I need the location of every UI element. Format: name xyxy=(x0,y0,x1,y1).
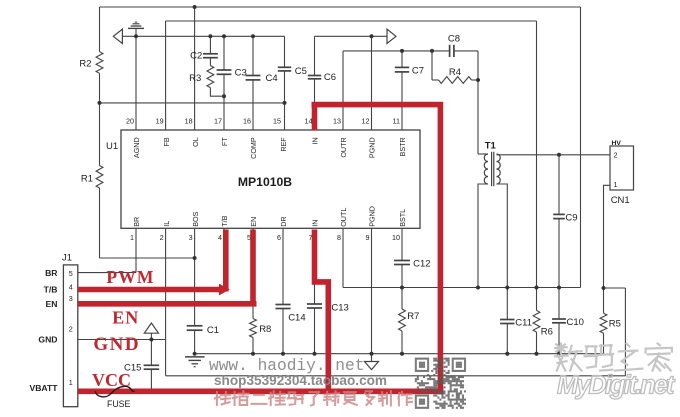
junction at 99.5,102.9 xyxy=(98,101,102,105)
svg-text:C12: C12 xyxy=(413,259,430,270)
junction at 507.3,287.5 xyxy=(505,286,509,290)
svg-text:PWM: PWM xyxy=(106,267,154,287)
svg-text:BR: BR xyxy=(132,217,141,227)
resistor R3 xyxy=(189,58,224,96)
svg-text:OUTR: OUTR xyxy=(339,137,348,157)
capacitor C10 (divider bottom) xyxy=(552,288,584,354)
junction at 402,50.9 xyxy=(400,49,404,53)
node: left off-page arrow (AGND) xyxy=(113,29,122,43)
wire: secondary bottom lead xyxy=(497,184,508,288)
wire: secondary top lead (HV) xyxy=(497,154,611,156)
svg-text:11: 11 xyxy=(393,116,400,125)
svg-text:BR: BR xyxy=(45,268,58,278)
svg-text:T1: T1 xyxy=(485,141,497,152)
svg-text:C8: C8 xyxy=(448,34,460,45)
wire: primary bottom lead xyxy=(478,184,488,288)
wire: PGND/arrow net horizontal top right xyxy=(315,35,388,37)
svg-text:FUSE: FUSE xyxy=(107,399,131,409)
capacitor C13 on IN pin 7 node xyxy=(307,282,349,354)
svg-text:4: 4 xyxy=(69,283,73,292)
svg-text:FB: FB xyxy=(162,137,171,146)
wire: right vertical drop from top net to feedback bus xyxy=(580,7,582,288)
junction at 136,36.3 xyxy=(134,34,138,38)
wire: OUTL / feedback bus horizontal xyxy=(343,287,581,289)
svg-text:17: 17 xyxy=(214,116,222,125)
svg-text:PGND: PGND xyxy=(368,206,377,227)
svg-text:EN: EN xyxy=(46,299,58,309)
junction at 224,36.3 xyxy=(222,34,226,38)
wire: red EN trace from J1 pin 3 xyxy=(78,301,257,307)
capacitor C4 on COMP pin 16 column xyxy=(246,36,278,130)
svg-text:J1: J1 xyxy=(62,253,72,264)
svg-text:C9: C9 xyxy=(565,212,577,223)
capacitor C8 xyxy=(448,34,460,58)
svg-text:3: 3 xyxy=(69,294,73,303)
wire: red T/B trace from J1 pin 4 xyxy=(78,287,220,293)
svg-text:BSTL: BSTL xyxy=(398,209,407,227)
svg-text:C13: C13 xyxy=(331,303,348,314)
ground symbol (inverted earth above AGND wire) xyxy=(128,22,144,36)
svg-text:C3: C3 xyxy=(235,67,247,78)
junction at 194.6,353.7 xyxy=(193,352,197,356)
transformer core lines xyxy=(491,152,493,186)
svg-text:1: 1 xyxy=(69,378,73,387)
svg-text:CN1: CN1 xyxy=(611,195,630,206)
watermark Chinese red text row xyxy=(215,391,412,405)
svg-text:1: 1 xyxy=(614,180,618,189)
junction at 224,96.2 xyxy=(222,94,226,98)
wire: J1 BR stub to pin1 column xyxy=(78,272,136,274)
resistor R6 on FB column xyxy=(533,21,553,354)
svg-text:IN: IN xyxy=(311,137,320,144)
svg-text:C14: C14 xyxy=(288,313,305,324)
capacitor C1 xyxy=(187,325,219,354)
svg-text:R5: R5 xyxy=(609,319,621,330)
junction at 253,353.7 xyxy=(251,352,255,356)
resistor R5 (to CN1 pin 1) xyxy=(600,288,621,354)
junction at 559,154.8 xyxy=(557,153,561,157)
svg-text:4: 4 xyxy=(218,233,222,242)
svg-text:R3: R3 xyxy=(189,73,201,84)
wire: J1 GND stub to pin2 column xyxy=(78,339,166,341)
svg-text:9: 9 xyxy=(366,233,370,242)
svg-text:GND: GND xyxy=(93,334,140,355)
svg-text:R6: R6 xyxy=(541,326,553,337)
svg-text:8: 8 xyxy=(337,233,341,242)
svg-text:R7: R7 xyxy=(407,311,419,322)
junction at 478,80 xyxy=(476,78,480,82)
capacitor C2 xyxy=(190,36,218,61)
junction at 284.5,102.9 xyxy=(283,101,287,105)
capacitor C12 on BSTL pin 10 column xyxy=(394,228,430,287)
wire: pin 12 PGND stub xyxy=(371,36,373,130)
wire: ground bus horizontal xyxy=(195,353,604,355)
wire: pin 13 OUTR stub xyxy=(342,51,344,130)
wire: R1 bottom to BOS pin 3 xyxy=(99,188,101,258)
svg-text:HV: HV xyxy=(612,140,622,147)
junction at 371.5,36.3 xyxy=(370,34,374,38)
transformer T1 xyxy=(478,141,610,288)
svg-text:20: 20 xyxy=(126,116,134,125)
junction at 432,50.9 xyxy=(430,49,434,53)
svg-text:www. haodiy. net: www. haodiy. net xyxy=(209,357,364,375)
op-amp U1 MP1010B controller IC body xyxy=(121,130,420,228)
wire: pin 9 PGND stub down to ground bus xyxy=(371,228,373,353)
svg-text:R1: R1 xyxy=(81,174,93,185)
junction at 194.6,7 xyxy=(193,5,197,9)
wire: C8/R4 right node down to T1 primary top xyxy=(477,51,479,154)
svg-text:19: 19 xyxy=(156,116,164,125)
resistor R2 xyxy=(79,7,103,103)
junction at 371.5,353.7 xyxy=(370,352,374,356)
svg-text:GND: GND xyxy=(38,335,57,345)
junction at 559,353.7 xyxy=(557,352,561,356)
svg-text:C11: C11 xyxy=(515,318,532,329)
svg-text:15: 15 xyxy=(273,116,281,125)
svg-text:AGND: AGND xyxy=(132,137,141,158)
svg-text:16: 16 xyxy=(243,116,251,125)
svg-text:C7: C7 xyxy=(412,66,424,77)
capacitor C7 on BSTR pin 11 column xyxy=(395,51,424,130)
svg-text:C4: C4 xyxy=(266,73,278,84)
svg-text:2: 2 xyxy=(160,233,164,242)
wire: pin 3 BOS column xyxy=(194,228,196,325)
svg-text:C1: C1 xyxy=(207,325,219,336)
wire: pin 2 IL column down to GND wire and lower return xyxy=(165,228,167,375)
wire: lower ground return path (J1 GND to CN1 pin1/R5) xyxy=(166,375,626,377)
wire: top net (R2/OL to right-side drop) xyxy=(100,6,581,8)
svg-text:2: 2 xyxy=(614,151,618,160)
wire: AGND net horizontal with left arrow xyxy=(122,35,284,37)
svg-text:C10: C10 xyxy=(567,317,584,328)
ground arrow (down, off-page PGND) xyxy=(365,354,379,370)
svg-text:EN: EN xyxy=(249,217,258,227)
ground arrow (up, off-page near C15) xyxy=(144,323,158,340)
ground symbol (earth below C1) xyxy=(185,357,205,367)
svg-text:PGND: PGND xyxy=(368,137,377,158)
svg-text:VCC: VCC xyxy=(92,370,131,390)
wire: REF net horizontal (R1/R2 node to C5/pin15) xyxy=(100,102,285,104)
svg-text:IN: IN xyxy=(311,220,320,227)
connector CN1 xyxy=(604,140,634,288)
resistor R4 parallel with C8 xyxy=(432,51,478,84)
junction at 559,287.5 xyxy=(557,286,561,290)
svg-text:14: 14 xyxy=(305,116,313,125)
svg-text:1: 1 xyxy=(130,233,134,242)
fuse F1 symbol on VCC line xyxy=(95,386,135,397)
capacitor C15 xyxy=(124,340,159,392)
wire: pin 1 BR stub xyxy=(135,228,137,272)
capacitor C11 xyxy=(500,288,532,354)
svg-text:IL: IL xyxy=(162,221,171,227)
capacitor C9 (HV divider top) xyxy=(553,155,577,288)
svg-text:R2: R2 xyxy=(79,59,91,70)
wire: pin 20 AGND stub xyxy=(135,36,137,130)
svg-text:C2: C2 xyxy=(190,51,202,62)
capacitor C5 on REF pin 15 column xyxy=(278,36,307,130)
svg-text:VBATT: VBATT xyxy=(29,383,58,393)
wire: CN1 pin 1 lead down to R5 node xyxy=(604,185,611,288)
capacitor C3 on FT pin 17 column xyxy=(217,36,247,130)
junction at 402,287.5 xyxy=(400,286,404,290)
resistor R1 xyxy=(81,103,103,188)
capacitor C14 on DR pin 6 column xyxy=(275,228,305,353)
svg-text:REF: REF xyxy=(279,137,288,152)
junction at 536.5,287.5 xyxy=(535,286,539,290)
svg-text:FT: FT xyxy=(220,137,229,146)
junction at 507.3,353.7 xyxy=(505,352,509,356)
svg-text:R4: R4 xyxy=(449,67,461,78)
svg-text:DR: DR xyxy=(279,216,288,226)
wire: pin 18 OL stub up to top net xyxy=(194,7,196,130)
svg-text:13: 13 xyxy=(333,116,341,125)
wire: pin 19 FB stub xyxy=(165,21,167,130)
svg-text:R8: R8 xyxy=(259,324,271,335)
wire: FB net horizontal (pin 19 to R6 column) xyxy=(166,20,537,22)
junction at 283,353.7 xyxy=(281,352,285,356)
svg-text:MyDigit.net: MyDigit.net xyxy=(557,372,676,400)
junction at 151.4,339.5 xyxy=(149,338,153,342)
wire: primary top lead xyxy=(478,153,488,155)
svg-text:BOS: BOS xyxy=(191,211,200,226)
junction at 210.4,36.3 xyxy=(208,34,212,38)
wire: red VCC trace from J1 pin 1 xyxy=(78,388,443,394)
junction at 314.5,353.7 xyxy=(313,352,317,356)
svg-text:T/B: T/B xyxy=(220,215,229,226)
wire: pin 8 OUTL stub xyxy=(342,228,344,287)
junction at 603.5,288 xyxy=(602,286,606,290)
wire: pin 4 T/B stub (under red) xyxy=(223,228,225,289)
wire: OUTR net horizontal (pin 13 up to C7/C8/R4) xyxy=(343,50,449,52)
svg-text:6: 6 xyxy=(277,233,281,242)
svg-text:COMP: COMP xyxy=(249,137,258,159)
svg-text:EN: EN xyxy=(112,308,139,328)
resistor R7 xyxy=(399,288,420,354)
junction at 253,36.3 xyxy=(251,34,255,38)
svg-text:shop35392304.taobao.com: shop35392304.taobao.com xyxy=(214,373,387,388)
wire: red IN(14) supply trace xyxy=(312,102,441,392)
node: right off-page arrow (PGND) xyxy=(387,29,396,43)
connector J1 xyxy=(62,253,78,407)
svg-text:C6: C6 xyxy=(324,72,336,83)
wire: pin 5 EN stub (under red) xyxy=(252,228,254,303)
junction at 194.6,258 xyxy=(193,256,197,260)
svg-text:OUTL: OUTL xyxy=(339,208,348,227)
svg-text:BSTR: BSTR xyxy=(398,137,407,156)
junction at 536.5,353.7 xyxy=(535,352,539,356)
svg-text:U1: U1 xyxy=(106,141,118,152)
svg-text:T/B: T/B xyxy=(44,285,58,295)
svg-text:2: 2 xyxy=(69,325,73,334)
junction at 478,287.5 xyxy=(476,286,480,290)
svg-text:5: 5 xyxy=(69,269,73,278)
watermark ShuMaZhiJia outline xyxy=(555,344,672,371)
svg-text:OL: OL xyxy=(191,137,200,147)
wire: red IN(7) supply trace xyxy=(315,230,329,392)
svg-text:3: 3 xyxy=(189,233,193,242)
svg-text:C5: C5 xyxy=(295,66,307,77)
resistor R8 (EN pulldown) xyxy=(250,304,272,354)
svg-text:10: 10 xyxy=(392,233,400,242)
QR code watermark xyxy=(415,358,466,409)
junction at 402,353.7 xyxy=(400,352,404,356)
svg-text:MP1010B: MP1010B xyxy=(238,175,292,189)
capacitor C6 on IN pin 14 column xyxy=(308,36,336,130)
svg-text:18: 18 xyxy=(185,116,193,125)
svg-text:12: 12 xyxy=(362,116,370,125)
